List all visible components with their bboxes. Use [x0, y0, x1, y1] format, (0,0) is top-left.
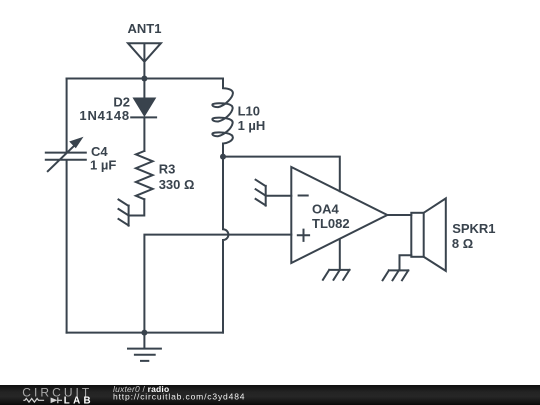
svg-text:LAB: LAB — [64, 396, 94, 405]
wire ANT1 to D2 — [143, 79, 145, 99]
antenna ANT1 — [128, 43, 161, 78]
resistor R3 — [136, 151, 153, 199]
chassis ground at speaker — [383, 270, 409, 280]
svg-text:OA4: OA4 — [312, 202, 340, 217]
wire L10 junction down with hop over plus-input wire — [223, 157, 228, 333]
node junction at ANT1 — [141, 76, 147, 82]
svg-text:ANT1: ANT1 — [128, 21, 162, 36]
node junction at L10 bottom — [220, 154, 226, 160]
chassis ground at op-amp V- — [323, 270, 350, 280]
wire op-amp V- to ground — [339, 240, 341, 270]
svg-text:8 Ω: 8 Ω — [452, 236, 473, 251]
wire D2 to R3 — [143, 117, 145, 151]
inductor L10 — [212, 79, 233, 157]
svg-text:L10: L10 — [238, 104, 260, 119]
wire bottom rail — [67, 332, 223, 334]
chassis ground at R3 — [119, 200, 129, 226]
svg-text:1 µF: 1 µF — [90, 158, 116, 173]
svg-text:SPKR1: SPKR1 — [452, 221, 495, 236]
svg-text:330 Ω: 330 Ω — [159, 177, 195, 192]
op-amp OA4 — [291, 167, 387, 263]
wire L10 junction to op-amp V+ — [223, 157, 340, 192]
wire top rail — [67, 78, 223, 80]
wire left rail upper (to C4) — [66, 79, 68, 153]
wire minus ground to op-amp — [266, 195, 292, 197]
speaker SPKR1 — [411, 198, 446, 271]
svg-text:1N4148: 1N4148 — [79, 108, 130, 123]
CircuitLab logo wordmark — [0, 385, 110, 405]
logo resistor-diode glyph — [23, 397, 62, 403]
chassis ground at minus input — [256, 180, 266, 206]
node junction at bottom rail — [141, 330, 147, 336]
svg-text:1 µH: 1 µH — [238, 118, 266, 133]
wire left rail lower (C4 to bottom) — [66, 160, 68, 332]
svg-text:C4: C4 — [91, 144, 108, 159]
capacitor C4 (variable) — [46, 137, 86, 171]
svg-text:R3: R3 — [159, 162, 176, 177]
wire op-amp output to speaker — [387, 214, 411, 216]
wire R3 to ground — [129, 199, 145, 215]
svg-text:TL082: TL082 — [312, 216, 350, 231]
earth ground at bottom — [128, 333, 161, 361]
op-amp plus pin sign — [298, 230, 309, 241]
op-amp minus pin sign — [299, 195, 308, 197]
diode D2 — [131, 98, 156, 117]
wire plus-input net — [144, 235, 291, 333]
svg-text:http://circuitlab.com/c3yd484: http://circuitlab.com/c3yd484 — [113, 392, 245, 402]
wire speaker second terminal to ground — [400, 255, 412, 270]
